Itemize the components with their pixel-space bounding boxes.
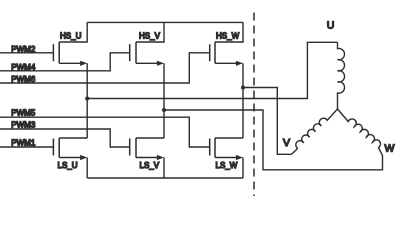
svg-text:PWM1: PWM1 [11,138,36,147]
wire: LS_V drain [136,137,164,139]
wire: HS_U source with arrow [59,62,80,64]
inductor: motor winding U (vertical coil) [338,42,345,109]
transistor HS_W [210,22,243,66]
wire: HS_W drain to top rail [215,22,243,42]
gate bar LS_U [52,139,54,156]
wire: PWM4 input to HS_V gate [0,53,130,71]
channel HS_V [135,42,137,63]
svg-text:LS_U: LS_U [58,161,78,170]
wire: phase W output to motor terminal V [243,88,292,155]
svg-text:PWM5: PWM5 [11,109,36,118]
svg-text:HS_W: HS_W [216,32,240,41]
channel HS_W [214,42,216,63]
svg-text:HS_V: HS_V [139,32,161,41]
wire: HS_V drain to top rail [136,22,164,42]
svg-text:LS_W: LS_W [216,161,238,170]
svg-text:PWM6: PWM6 [11,75,36,84]
svg-text:W: W [385,143,395,155]
wire: LS_W source with arrow [215,157,236,159]
transistor HS_V [130,22,164,66]
wire: top DC bus rail [87,21,243,23]
inductor: motor winding W (lower-right coil) [338,109,383,156]
wire: PWM3 input to LS_V gate [0,129,130,147]
transistor HS_U [53,22,87,66]
node: phase W junction dot [241,86,245,90]
svg-text:PWM4: PWM4 [11,63,36,72]
wire: HS_W source with arrow [215,62,236,64]
gate bar HS_V [129,44,131,61]
svg-text:PWM3: PWM3 [11,120,36,129]
gate bar LS_V [129,139,131,156]
wire: HS_U drain to top rail [59,22,87,42]
wire: LS_V source with arrow [136,157,157,159]
svg-text:HS_U: HS_U [60,32,82,41]
wire: PWM2 input to HS_U gate [0,52,53,54]
wire: PWM6 input to HS_W gate [0,53,210,83]
wire: phase U output to motor terminal U [87,42,337,98]
wire: LS_U drain [59,137,87,139]
svg-text:LS_V: LS_V [140,161,160,170]
svg-text:PWM2: PWM2 [11,45,36,54]
wire: HS_V source with arrow [136,62,157,64]
svg-text:U: U [327,19,335,31]
channel LS_W [214,138,216,158]
wire: phase V output to motor terminal W [164,110,383,170]
wire: LS_U source to bottom rail [86,158,88,179]
wire: LS_W source to bottom rail [242,158,244,179]
transistor LS_V [130,138,164,178]
wire: phase U vertical [86,63,88,138]
wire: LS_V source to bottom rail [163,158,165,179]
wire: PWM5 input to LS_W gate [0,117,210,147]
svg-text:V: V [283,137,290,149]
inductor: motor winding V (lower-left coil) [292,109,338,154]
channel LS_V [135,138,137,158]
node: phase V junction dot [162,108,166,112]
wire: phase W vertical [242,63,244,138]
gate bar LS_W [209,139,211,156]
transistor LS_U [53,138,87,178]
wire: phase V vertical [163,63,165,138]
node: phase U junction dot [85,97,89,101]
gate bar HS_U [52,44,54,61]
channel LS_U [58,138,60,158]
gate bar HS_W [209,44,211,61]
dashed separator line [253,13,255,197]
transistor LS_W [210,138,243,178]
wire: bottom DC bus rail [87,177,243,179]
wire: PWM1 input to LS_U gate [0,146,53,148]
channel HS_U [58,42,60,63]
wire: LS_W drain [215,137,243,139]
wire: LS_U source with arrow [59,157,80,159]
